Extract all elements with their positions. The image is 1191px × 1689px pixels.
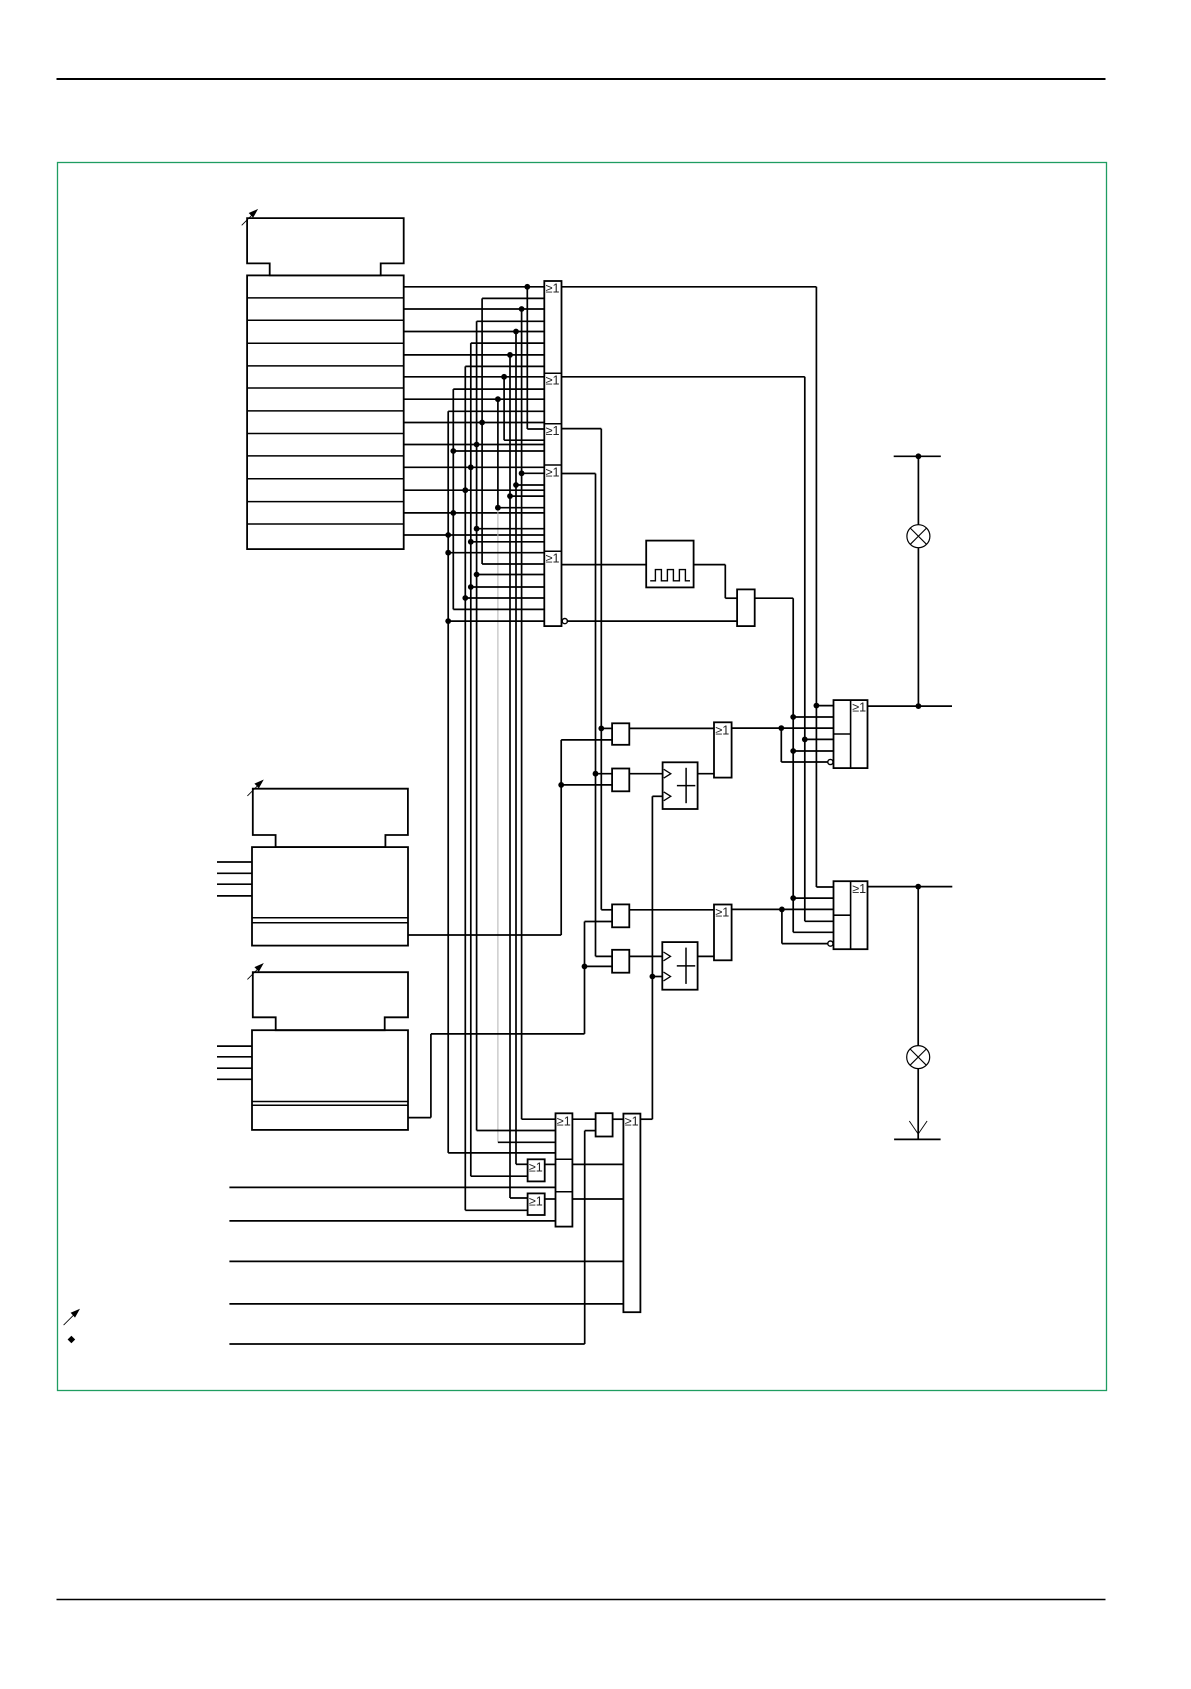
OR gate A1 inverter bubble [562,619,567,624]
svg-text:≥1: ≥1 [546,465,560,479]
weave vertical net row9 [468,343,544,1176]
weave vertical net row2 [519,309,556,1119]
wire A1 gate1 output [562,287,834,887]
wire A1 gate5 output [562,564,647,566]
wire row 8 from X1 [404,442,545,448]
weave vertical net row7 [482,298,544,564]
delay box D1 [737,589,755,626]
wire bottom input 4 [229,1303,623,1305]
svg-text:≥1: ≥1 [529,1160,543,1174]
wire row 2 from X1 [404,306,545,312]
weave vertical net row6 [495,399,556,1142]
wire T1 output [698,773,714,775]
weave vertical net row10 [462,366,544,1210]
wire lamp H2 to ground [917,1069,919,1139]
wire X3 output net [408,922,612,1118]
wire row 5 from X1 [404,374,545,380]
svg-text:≥1: ≥1 [546,374,560,388]
ground bar [894,1138,941,1140]
weave vertical net row11 [450,389,544,609]
wire FF1 output [868,703,953,709]
green diagram frame [58,163,1107,1391]
svg-text:≥1: ≥1 [852,701,866,715]
weave vertical net row8 [474,321,556,1130]
svg-text:≥1: ≥1 [557,1114,571,1128]
pulse generator G1 [646,541,693,588]
connector X3 body [252,1030,408,1130]
wire bottom input 5 [229,1131,595,1344]
legend arrow [64,1309,80,1325]
wire bottom input 3 [229,1260,623,1262]
legend diamond [68,1336,76,1343]
wire FF2 output [868,884,953,890]
weave vertical net row1 [527,287,544,429]
OR gate A1 stack [544,281,561,626]
wire FF2 output to lamp H2 [917,887,919,1046]
wire row 12 from X1 [404,532,545,538]
OR gate C1 [623,1114,640,1313]
page header rule [57,78,1106,80]
connector X1 cap [247,218,404,275]
svg-text:≥1: ≥1 [625,1115,639,1129]
wire G1 output [694,565,738,599]
box B3 [612,904,629,927]
lamp H1 [907,525,930,548]
wire B2 output [629,773,662,775]
wire A1 inverted output [567,620,737,622]
wire B4 output [629,955,662,957]
wire row 3 from X1 [404,329,545,335]
wire A3 output [545,1163,556,1165]
connector X2 input pins [217,862,252,896]
wire row 1 from X1 [404,284,545,290]
timer T2 [662,942,697,990]
box B2 [612,769,629,792]
wire D1 output [755,598,834,932]
OR gate U1 [714,722,732,777]
timer T1 [663,762,698,809]
svg-text:≥1: ≥1 [852,882,866,896]
wire bottom input 2 [229,1220,555,1222]
inverter bubble FF1 input [828,759,833,764]
svg-text:≥1: ≥1 [546,552,560,566]
inverter bubble FF2 input [828,941,833,946]
wire A4 output [545,1198,556,1200]
OR gate A3 [528,1159,545,1181]
svg-text:≥1: ≥1 [546,281,560,295]
page footer rule [57,1599,1106,1601]
wire bottom input 1 [229,1186,555,1188]
wire C1 output to timers [640,796,662,1119]
wire row 4 from X1 [404,352,545,358]
box B5 [596,1113,613,1136]
wire U1 output [732,725,834,762]
weave vertical net row3 [513,332,544,1165]
wire A1 gate4 output [562,474,613,957]
box B4 [612,950,629,973]
wire row 10 from X1 [404,487,545,493]
wire A1 gate3 output [562,429,613,910]
svg-text:≥1: ≥1 [715,723,729,737]
svg-text:≥1: ≥1 [546,424,560,438]
connector X2 arrow [247,780,263,796]
lamp H2 [907,1046,930,1069]
box B1 [612,723,629,745]
wire X2 output riser [408,740,612,935]
connector X3 cap [253,972,408,1030]
connector X2 cap [253,789,408,847]
OR gate U2 [714,905,732,961]
connector X2 body [252,847,408,946]
wire B5 output [613,1118,624,1120]
flip-flop FF1 [834,700,868,768]
wire rail to lamp H1 [917,456,919,524]
weave vertical net row12 [445,411,555,1153]
wire row 11 from X1 [404,510,545,516]
wire A1 gate2 output [562,377,834,922]
wire T2 output [698,955,714,957]
wire row 6 from X1 [404,396,545,402]
weave vertical net row4 [507,355,544,1198]
wire U2 output [732,907,834,944]
wire A2 section3 output [572,1198,623,1200]
ground arrow [909,1121,927,1134]
connector X1 body [247,275,404,549]
wire B1 output [629,727,714,729]
svg-text:≥1: ≥1 [529,1194,543,1208]
supply rail [894,453,941,459]
connector X1 arrow [242,209,258,225]
svg-text:≥1: ≥1 [715,906,729,920]
wire A2 section1 output [572,1118,595,1120]
flip-flop FF2 [834,881,868,949]
wire row 7 from X1 [404,420,545,426]
OR gate A2 stack [556,1113,573,1226]
wire A2 section2 output [572,1163,623,1165]
weave vertical net row5 [504,377,544,440]
wire lamp H1 to FF1 output [917,548,919,706]
wire row 9 from X1 [404,464,545,470]
wire B3 output [629,909,714,911]
OR gate A4 [528,1193,545,1215]
connector X3 input pins [217,1046,252,1079]
connector X3 arrow [247,963,263,979]
